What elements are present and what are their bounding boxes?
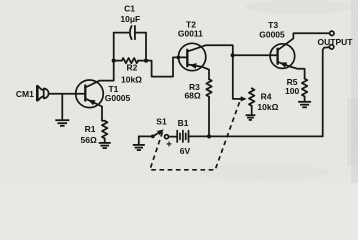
svg-text:100: 100 xyxy=(285,86,299,96)
svg-text:G0005: G0005 xyxy=(259,29,285,39)
svg-text:C1: C1 xyxy=(124,4,135,14)
svg-text:B1: B1 xyxy=(178,118,189,128)
svg-text:OUTPUT: OUTPUT xyxy=(318,37,354,47)
svg-text:10kΩ: 10kΩ xyxy=(257,102,278,112)
svg-text:G0005: G0005 xyxy=(105,93,131,103)
svg-text:R4: R4 xyxy=(261,92,272,102)
svg-text:10μF: 10μF xyxy=(120,14,140,24)
svg-text:68Ω: 68Ω xyxy=(184,91,200,101)
svg-text:G0011: G0011 xyxy=(178,29,203,39)
svg-text:R2: R2 xyxy=(126,62,137,72)
svg-text:R1: R1 xyxy=(85,124,96,134)
svg-text:S1: S1 xyxy=(156,116,167,126)
svg-text:6V: 6V xyxy=(180,146,191,156)
svg-text:+: + xyxy=(166,139,172,150)
svg-text:CM1: CM1 xyxy=(16,89,34,99)
svg-text:10kΩ: 10kΩ xyxy=(121,75,142,85)
svg-text:56Ω: 56Ω xyxy=(81,135,97,145)
